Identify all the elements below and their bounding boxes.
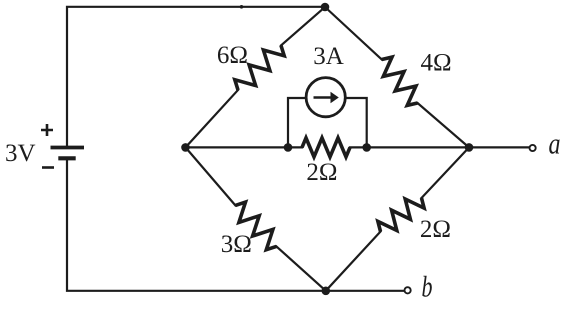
svg-text:4Ω: 4Ω bbox=[420, 50, 451, 77]
svg-text:2Ω: 2Ω bbox=[420, 216, 451, 243]
svg-text:a: a bbox=[549, 128, 561, 161]
svg-text:2Ω: 2Ω bbox=[306, 159, 337, 186]
svg-text:3V: 3V bbox=[5, 140, 36, 167]
svg-text:6Ω: 6Ω bbox=[217, 42, 248, 69]
svg-text:3A: 3A bbox=[313, 43, 344, 70]
svg-text:3Ω: 3Ω bbox=[221, 231, 252, 258]
svg-text:b: b bbox=[422, 271, 433, 304]
